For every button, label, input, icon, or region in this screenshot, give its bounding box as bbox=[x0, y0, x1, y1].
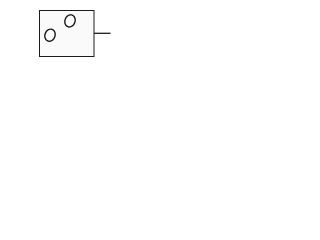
wire (right terminal lead) bbox=[94, 32, 111, 34]
circle contact 2 (upper-right ellipse) bbox=[63, 13, 77, 28]
component U1 body (box) bbox=[40, 11, 95, 57]
circle contact 1 (lower-left ellipse) bbox=[43, 28, 57, 43]
